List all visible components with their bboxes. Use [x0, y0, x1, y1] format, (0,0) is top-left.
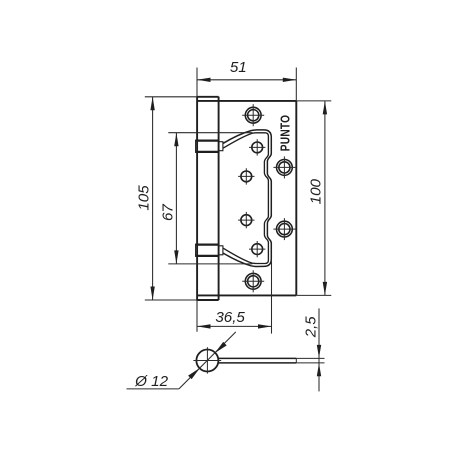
strip extension lines for 2,5: [296, 358, 324, 363]
thin extension lines: [145, 68, 331, 334]
small hole 4: [252, 244, 263, 255]
dimension 36,5 line: [197, 325, 272, 327]
bottom view: leaf strip: [218, 358, 296, 363]
svg-text:36,5: 36,5: [215, 309, 245, 326]
dimension 67 line: [175, 133, 177, 264]
bottom view: barrel circle: [196, 350, 218, 372]
diameter leader line: [179, 332, 236, 389]
upper knuckle band: [195, 140, 223, 153]
plate outline: [197, 101, 296, 296]
folded leaf contour inner line: [223, 133, 268, 264]
bottom view: centre cross: [193, 347, 221, 373]
small hole 3: [241, 215, 252, 226]
countersunk hole bottom (large): [245, 273, 261, 289]
dimension 2,5 line: [318, 308, 320, 391]
leader underline: [127, 388, 179, 390]
svg-text:PUNTO: PUNTO: [278, 115, 292, 151]
svg-text:Ø 12: Ø 12: [134, 373, 168, 390]
dimension 105 line: [152, 97, 154, 300]
dimension 51 line: [197, 79, 296, 81]
svg-text:105: 105: [136, 185, 153, 211]
hole centre crosses: [238, 104, 295, 292]
lower knuckle band: [195, 244, 223, 257]
small hole 1: [252, 142, 263, 153]
svg-text:100: 100: [307, 178, 324, 204]
svg-text:67: 67: [159, 204, 176, 221]
arrowheads: [150, 78, 327, 380]
folded leaf contour outer line: [223, 130, 271, 267]
countersunk hole right-upper (large): [277, 160, 293, 176]
barrel (hinge knuckle column): [196, 97, 218, 301]
small hole 2: [241, 171, 252, 182]
countersunk hole right-lower (large): [277, 221, 293, 237]
svg-text:2,5: 2,5: [303, 316, 320, 339]
countersunk hole top (large): [245, 107, 261, 123]
dimension 100 line: [324, 101, 326, 296]
svg-text:51: 51: [230, 59, 247, 76]
